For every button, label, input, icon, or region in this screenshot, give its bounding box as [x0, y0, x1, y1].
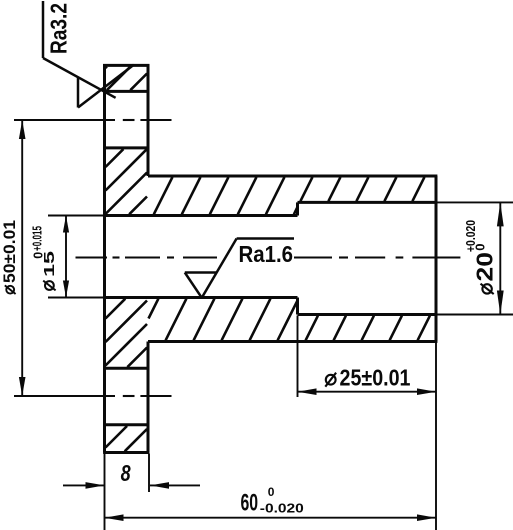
- bore 15 upper line: [105, 214, 298, 217]
- hub upper band hatch: [154, 177, 425, 214]
- flange hatch between top hole and bore: [106, 149, 148, 214]
- svg-text:50±0.01: 50±0.01: [0, 220, 19, 283]
- surface symbol Ra1.6: [185, 239, 294, 298]
- d20 extension line bottom: [437, 314, 513, 316]
- counterbore step lower face: [296, 298, 299, 315]
- d15 extension line top: [48, 215, 105, 217]
- counterbore step upper face: [296, 202, 299, 215]
- flange left edge: [103, 64, 106, 453]
- svg-text:0: 0: [473, 244, 488, 251]
- label d50: [0, 220, 19, 294]
- svg-text:20: 20: [472, 252, 498, 282]
- surface symbol Ra3.2: [43, 1, 134, 108]
- right face extension line: [435, 343, 437, 530]
- bottom bolt hole axis: [14, 395, 172, 397]
- d15 extension line bottom: [48, 297, 105, 299]
- right end face: [435, 176, 438, 342]
- flange right edge upper: [147, 64, 150, 176]
- d25 extension line left: [297, 316, 299, 398]
- label 60 with tolerance: [241, 485, 304, 517]
- dimension line 60: [105, 514, 437, 521]
- label d25: [325, 364, 410, 390]
- svg-text:25±0.01: 25±0.01: [340, 364, 411, 390]
- hub top edge: [148, 175, 437, 178]
- dimension line d15: [63, 216, 69, 298]
- svg-text:Ra1.6: Ra1.6: [239, 241, 294, 267]
- hub bottom edge: [148, 340, 437, 343]
- label d20: [472, 252, 498, 294]
- svg-text:Ra3.2: Ra3.2: [46, 3, 72, 54]
- dimension 8 right arrow: [150, 482, 200, 489]
- hub lower band hatch: [149, 299, 430, 341]
- main centerline: [76, 256, 461, 258]
- svg-text:0: 0: [268, 485, 275, 499]
- flange hatch bottom rim: [106, 426, 148, 451]
- label 8: [121, 460, 132, 486]
- flange hatch between bore and bottom hole: [106, 299, 148, 367]
- bore 20 lower line: [298, 313, 437, 316]
- label Ra1.6: [239, 241, 294, 267]
- svg-text:-0.020: -0.020: [260, 500, 304, 515]
- flange right edge lower: [147, 342, 150, 453]
- top bolt hole lower edge: [105, 146, 149, 149]
- svg-text:60: 60: [241, 490, 259, 517]
- bore 20 upper line: [298, 201, 437, 204]
- svg-text:8: 8: [121, 460, 132, 486]
- dimension 8 left arrow: [63, 482, 105, 489]
- d20 extension line top: [437, 201, 513, 203]
- bottom bolt hole upper edge: [105, 367, 149, 370]
- 8 extension line right: [148, 454, 150, 493]
- label Ra3.2: [46, 3, 72, 54]
- dimension line d25: [298, 388, 437, 395]
- top bolt hole axis: [14, 119, 172, 121]
- label d15: [42, 251, 58, 290]
- 60 extension line left: [104, 454, 106, 530]
- dimension line d50: [19, 120, 26, 396]
- flange top edge: [103, 64, 149, 67]
- flange hatch top rim: [106, 67, 148, 91]
- svg-text:+0.015: +0.015: [30, 226, 44, 251]
- flange bottom edge: [103, 451, 149, 454]
- bottom bolt hole lower edge: [105, 423, 149, 426]
- dimension line d20: [497, 202, 504, 314]
- bore 15 lower line: [105, 296, 298, 299]
- svg-text:0: 0: [32, 252, 46, 259]
- top bolt hole upper edge: [105, 90, 149, 93]
